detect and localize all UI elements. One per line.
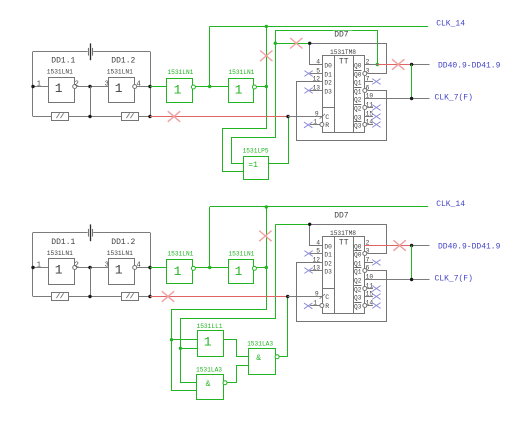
- svg-text:D2: D2: [324, 80, 332, 87]
- svg-text:1: 1: [204, 335, 212, 350]
- svg-text:Q1: Q1: [354, 269, 362, 276]
- resistor R1 (top): [52, 113, 69, 121]
- resistor R2 (top): [122, 113, 139, 121]
- node clock junction (bot): [286, 295, 289, 298]
- svg-text:TT: TT: [339, 238, 349, 247]
- error marker on vertical A (bot): [259, 231, 271, 242]
- inverter DD1.1 (top): [49, 78, 75, 103]
- svg-text:1: 1: [55, 81, 63, 96]
- wire clock into C pin (top): [288, 116, 323, 118]
- wire NAND2 out to clock net (bot): [280, 297, 288, 357]
- svg-text:D2: D2: [324, 261, 332, 268]
- wire D0 to Q0b feedback (bot): [363, 252, 367, 256]
- wire OR in2 (bot): [180, 348, 197, 350]
- svg-text:C: C: [325, 114, 329, 121]
- wire D0 to Q0b feedback (top): [363, 72, 367, 76]
- svg-text:Q2: Q2: [354, 278, 362, 285]
- wire oscillator out to buffer (bot): [150, 267, 167, 269]
- wire top loop (top): [33, 51, 88, 53]
- R pin bubble (top): [320, 123, 324, 127]
- error marker on clock net (top): [168, 111, 180, 122]
- svg-text:1: 1: [115, 81, 123, 96]
- wire R stub nc (bot): [310, 305, 320, 307]
- svg-text:1531TM8: 1531TM8: [330, 49, 356, 56]
- wire Q0-Q2 green tie (top): [411, 65, 413, 99]
- node OR in1 tap (bot): [170, 338, 173, 341]
- svg-text:Q2: Q2: [354, 287, 362, 294]
- svg-text:4: 4: [137, 261, 141, 269]
- svg-text:Q0: Q0: [354, 244, 362, 251]
- xor gate DD3 1531LP5 (top): [244, 157, 269, 180]
- svg-text:D1: D1: [324, 252, 332, 259]
- svg-text:DD7: DD7: [334, 30, 349, 39]
- svg-text:DD40.9-DD41.9: DD40.9-DD41.9: [438, 61, 501, 70]
- wire Q0 loop to XOR in1 (top): [232, 31, 378, 164]
- svg-text:4: 4: [137, 80, 141, 88]
- wire signal row (top): [33, 86, 48, 88]
- wire green branch to D0 net (bot): [275, 224, 309, 226]
- error marker on Q0 (bot): [393, 240, 405, 251]
- wire OR out to NAND2 in1 (bot): [224, 340, 249, 357]
- svg-text:Q0: Q0: [354, 63, 362, 70]
- svg-text:D0: D0: [324, 244, 332, 251]
- error marker on Q0 (top): [392, 59, 404, 70]
- svg-text:TT: TT: [339, 57, 349, 66]
- svg-text:1531LN1: 1531LN1: [47, 250, 73, 257]
- resistor R2 (bot): [122, 293, 139, 301]
- buffer DD2.1 1531LN1 (top): [167, 79, 193, 103]
- wire CLK_14 net (top): [209, 26, 211, 86]
- svg-text:1531LN1: 1531LN1: [107, 68, 133, 75]
- svg-text:3: 3: [105, 80, 109, 88]
- node Q0 junction (bot): [410, 244, 413, 247]
- wire CLK_14 net (bot): [209, 207, 211, 268]
- wire Q2b stub nc (bot): [363, 287, 367, 291]
- wire vertical A to XOR in2 (top): [223, 27, 267, 172]
- svg-text:Q1: Q1: [354, 261, 362, 268]
- wire vertical A to OR in1 and NAND in2 (bot): [172, 207, 267, 391]
- svg-text:1: 1: [37, 261, 41, 269]
- svg-text:D1: D1: [324, 72, 332, 79]
- svg-text:DD1.2: DD1.2: [111, 238, 135, 247]
- or gate DD4.1 1531LL1 (bot): [198, 331, 224, 357]
- node OR in2 tap (bot): [179, 347, 182, 350]
- wire Q3 stub nc (top): [364, 116, 373, 118]
- wire clock red net (top): [150, 116, 288, 118]
- svg-text:DD1.1: DD1.1: [51, 238, 75, 247]
- wire Q0 output net (bot): [364, 245, 412, 247]
- svg-text:1: 1: [115, 263, 123, 278]
- wire Q1 stub nc (top): [364, 81, 373, 83]
- node buffer junction (top): [208, 85, 211, 88]
- svg-text:Q1: Q1: [354, 89, 362, 96]
- flip-flop DD7 symbol body (top): [323, 56, 365, 133]
- svg-text:DD1.1: DD1.1: [51, 56, 75, 65]
- wire XOR output to clock net (top): [269, 117, 289, 164]
- resistor R1 (bot): [52, 293, 69, 301]
- svg-text:1: 1: [235, 83, 243, 98]
- node clock junction (top): [286, 115, 289, 118]
- svg-text:1531LN1: 1531LN1: [167, 251, 193, 258]
- svg-text:9: 9: [315, 111, 319, 118]
- wire resistor row (bot): [33, 296, 51, 298]
- svg-text:1: 1: [55, 263, 63, 278]
- svg-text:CLK_14: CLK_14: [436, 200, 465, 209]
- svg-text:CLK_7(F): CLK_7(F): [435, 93, 473, 102]
- node Q0 junction (top): [410, 63, 413, 66]
- wire D3 stub nc (bot): [310, 270, 323, 272]
- node buffer junction (bot): [208, 266, 211, 269]
- inverter DD1.1 (bot): [49, 259, 75, 285]
- wire buffer2 out (bot): [256, 267, 266, 269]
- svg-text:Q2: Q2: [354, 97, 362, 104]
- svg-text:C: C: [325, 294, 329, 301]
- wire buffer2 out (top): [256, 86, 266, 88]
- wire Q2b stub nc (top): [363, 106, 367, 110]
- wire Q1 stub nc (bot): [364, 262, 373, 264]
- svg-text:1: 1: [37, 80, 41, 88]
- wire NAND1 out to NAND2 in2 (bot): [228, 366, 249, 383]
- svg-text:1531LN1: 1531LN1: [228, 251, 254, 258]
- node feedback corner (top): [308, 42, 311, 45]
- svg-text:1531LN1: 1531LN1: [167, 69, 193, 76]
- svg-text:1531LA3: 1531LA3: [196, 367, 222, 374]
- wire D1 stub nc (top): [310, 73, 323, 75]
- wire D2 to Q1b feedback (bot): [363, 269, 367, 273]
- svg-text:1: 1: [174, 83, 182, 98]
- svg-text:CLK_14: CLK_14: [436, 20, 465, 29]
- svg-text:DD40.9-DD41.9: DD40.9-DD41.9: [438, 242, 501, 251]
- svg-text:R: R: [325, 303, 329, 310]
- node Q0 green tap (top): [376, 63, 379, 66]
- wire between buffers (top): [195, 86, 228, 88]
- nand gate DD5.2 1531LA3 (bot): [249, 349, 276, 375]
- svg-text:&: &: [256, 354, 261, 363]
- node junctions (top): [31, 85, 34, 88]
- svg-text:DD1.2: DD1.2: [111, 56, 135, 65]
- svg-text:=1: =1: [248, 161, 258, 170]
- wire D1 stub nc (bot): [310, 253, 323, 255]
- svg-text:CLK_7(F): CLK_7(F): [435, 274, 473, 283]
- svg-text:1531LL1: 1531LL1: [197, 323, 223, 330]
- wire R stub nc (top): [310, 124, 320, 126]
- svg-text:1531LN1: 1531LN1: [107, 250, 133, 257]
- wire between buffers (bot): [195, 267, 228, 269]
- C pin dynamic mark (top): [320, 114, 325, 119]
- buffer DD2.2 1531LN1 (bot): [229, 260, 254, 284]
- svg-text:Q3: Q3: [354, 123, 362, 130]
- svg-text:&: &: [206, 380, 211, 389]
- wire Q3 stub nc (bot): [364, 296, 373, 298]
- wire verticals (top): [90, 87, 92, 117]
- svg-text:2: 2: [75, 80, 79, 88]
- svg-text:Q3: Q3: [354, 115, 362, 122]
- svg-text:DD7: DD7: [334, 211, 349, 220]
- svg-text:1: 1: [174, 264, 182, 279]
- svg-text:Q3: Q3: [354, 295, 362, 302]
- svg-text:D0: D0: [324, 63, 332, 70]
- svg-text:D3: D3: [324, 89, 332, 96]
- svg-text:1531LP5: 1531LP5: [243, 148, 269, 155]
- error marker on clock net (bot): [162, 291, 174, 302]
- wire Q3b stub nc (top): [363, 123, 367, 127]
- svg-text:1531LN1: 1531LN1: [47, 68, 73, 75]
- capacitor C1 (top): [90, 43, 92, 60]
- node junctions (bot): [31, 266, 34, 269]
- wire Q2 output net (bot): [364, 279, 430, 281]
- svg-text:3: 3: [105, 261, 109, 269]
- svg-text:9: 9: [315, 291, 319, 298]
- svg-text:1: 1: [235, 264, 243, 279]
- svg-text:Q1: Q1: [354, 80, 362, 87]
- svg-text:1531LA3: 1531LA3: [247, 341, 273, 348]
- C pin dynamic mark (bot): [320, 294, 325, 299]
- svg-text:R: R: [325, 122, 329, 129]
- R pin bubble (bot): [320, 304, 324, 308]
- inverter DD1.2 (top): [109, 78, 135, 103]
- wire Q2 output net (top): [364, 98, 430, 100]
- wire D2 to Q1b feedback (top): [363, 89, 367, 93]
- wire OR in1 (bot): [172, 339, 198, 341]
- buffer DD2.2 1531LN1 (top): [229, 79, 254, 103]
- wire top loop (bot): [33, 232, 88, 234]
- nand gate DD5.1 1531LA3 (bot): [197, 375, 224, 400]
- svg-text:1531TM8: 1531TM8: [330, 230, 356, 237]
- error marker on D0 branch (top): [290, 38, 302, 49]
- wire resistor row (top): [33, 116, 51, 118]
- wire Q0 output net (top): [364, 64, 378, 66]
- node feedback corner (bot): [308, 223, 311, 226]
- wire clock red net (bot): [150, 296, 288, 298]
- svg-text:2: 2: [75, 261, 79, 269]
- wire green branch to D0 net (top): [275, 43, 309, 45]
- wire verticals (bot): [90, 268, 92, 297]
- wire Q3b stub nc (bot): [363, 304, 367, 308]
- inverter DD1.2 (bot): [109, 259, 135, 285]
- wire clock into C pin (bot): [288, 296, 323, 298]
- svg-text:Q3: Q3: [354, 304, 362, 311]
- wire vertical B to OR in2 and NAND in1 (bot): [181, 225, 276, 383]
- svg-text:Q2: Q2: [354, 106, 362, 113]
- wire oscillator out to buffer (top): [150, 86, 167, 88]
- svg-text:1531LN1: 1531LN1: [228, 69, 254, 76]
- svg-text:Q0: Q0: [354, 252, 362, 259]
- svg-text:Q0: Q0: [354, 72, 362, 79]
- buffer DD2.1 1531LN1 (bot): [167, 260, 193, 284]
- wire D3 stub nc (top): [310, 90, 323, 92]
- error marker on vertical A (top): [260, 51, 272, 62]
- svg-text:D3: D3: [324, 269, 332, 276]
- wire Q0-Q2 green tie (bot): [411, 246, 413, 280]
- flip-flop DD7 symbol body (bot): [323, 237, 365, 314]
- capacitor C1 (bot): [90, 224, 92, 241]
- wire signal row (bot): [33, 267, 48, 269]
